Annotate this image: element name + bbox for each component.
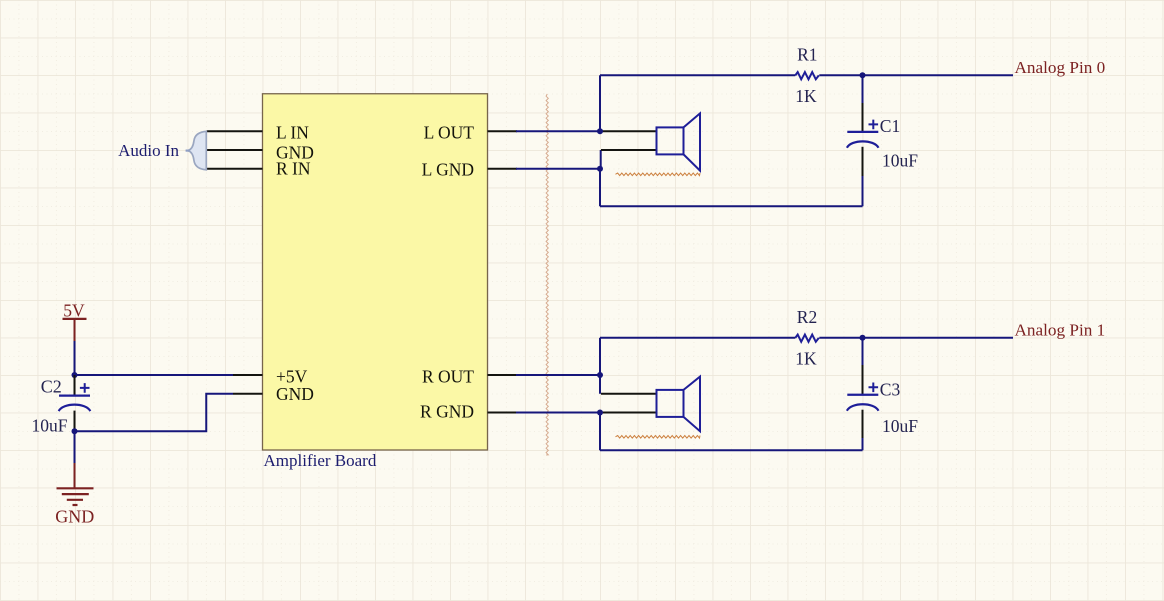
wire L OUT to node	[516, 130, 600, 132]
Audio In brace	[188, 131, 206, 169]
svg-text:1K: 1K	[795, 86, 817, 106]
C3 plus sign	[869, 383, 879, 393]
wire vertical node to bottom return (top loop)	[599, 169, 601, 207]
brace tip dot	[186, 150, 190, 152]
svg-text:Analog Pin 1: Analog Pin 1	[1015, 321, 1106, 340]
junction node at R1/C1	[860, 72, 866, 78]
node junction L GND	[597, 166, 603, 172]
svg-text:Amplifier Board: Amplifier Board	[264, 451, 377, 470]
svg-text:L IN: L IN	[276, 123, 309, 143]
svg-text:Analog Pin 0: Analog Pin 0	[1015, 58, 1106, 77]
svg-text:10uF: 10uF	[882, 416, 918, 436]
junction node C2/GND wire	[72, 428, 78, 434]
wire R GND to node	[516, 412, 600, 414]
svg-text:R1: R1	[797, 45, 817, 65]
wire C3 top lead	[862, 338, 864, 365]
pin GND (power)	[233, 384, 314, 404]
svg-text:L GND: L GND	[422, 160, 474, 180]
svg-text:GND: GND	[55, 506, 94, 526]
svg-text:C2: C2	[41, 377, 62, 397]
capacitor C3 plates	[847, 394, 878, 396]
wire bottom return (top loop)	[600, 205, 863, 207]
compile wavy underline LS2	[616, 436, 701, 439]
svg-text:C1: C1	[880, 116, 900, 136]
wire C3 bottom lead	[862, 438, 864, 450]
amplifier board U1 body	[263, 94, 488, 450]
wire C1 top lead	[862, 75, 864, 103]
wire R2 to Analog Pin 1	[819, 337, 1013, 339]
wire vertical left of speaker LS1 (top)	[599, 75, 601, 131]
pin GND (input)	[207, 143, 314, 163]
resistor R1 zigzag	[795, 72, 819, 79]
pin R IN	[207, 159, 311, 179]
svg-text:R IN: R IN	[276, 159, 311, 179]
wire L GND to node	[516, 168, 600, 170]
resistor R2 zigzag	[795, 335, 819, 342]
C1 plus sign	[869, 120, 879, 130]
wire C2 to GND pin (stepped)	[75, 394, 234, 432]
speaker LS1 body	[657, 113, 701, 170]
junction node at R2/C3	[860, 335, 866, 341]
power port 5V stem	[74, 319, 76, 341]
ground symbol	[57, 488, 94, 505]
wire R OUT to node	[516, 374, 600, 376]
node junction L OUT	[597, 128, 603, 134]
svg-text:Audio In: Audio In	[118, 141, 179, 160]
wire vertical node R GND down	[599, 413, 601, 451]
wire top loop 2 horizontal left segment	[600, 337, 795, 339]
svg-text:5V: 5V	[63, 300, 85, 320]
pin L IN	[207, 123, 310, 143]
svg-text:GND: GND	[276, 384, 314, 404]
junction node 5V/C2	[72, 372, 78, 378]
wire down to ground	[74, 431, 76, 463]
wire 5V to +5V pin	[74, 341, 76, 375]
wire vertical top loop 2	[599, 338, 601, 394]
pin +5V	[233, 366, 308, 386]
svg-text:1K: 1K	[795, 349, 817, 369]
svg-text:10uF: 10uF	[882, 151, 918, 171]
svg-text:R OUT: R OUT	[422, 366, 474, 386]
speaker LS1 pins	[601, 131, 657, 150]
wire bottom return (loop 2)	[600, 449, 863, 451]
wire C2 top lead	[74, 375, 76, 396]
speaker LS2 pins	[601, 394, 657, 413]
pin L OUT	[424, 123, 517, 143]
compile wavy underline LS1	[616, 173, 701, 176]
node junction R GND	[597, 410, 603, 416]
power port 5V bar	[63, 318, 87, 320]
capacitor C2 plates	[59, 395, 90, 397]
speaker LS2 body	[657, 377, 701, 432]
svg-text:10uF: 10uF	[32, 415, 68, 435]
wire C1 bottom lead	[862, 176, 864, 206]
pin R GND	[420, 402, 517, 422]
pin L GND	[422, 160, 517, 180]
svg-text:R2: R2	[797, 307, 817, 327]
svg-text:R GND: R GND	[420, 402, 474, 422]
C2 plus sign	[80, 383, 90, 393]
wire elbow speaker LS1 bottom pin	[600, 150, 602, 169]
node junction R OUT	[597, 372, 603, 378]
wire R1 to Analog Pin 0	[819, 74, 1013, 76]
pin R OUT	[422, 366, 517, 386]
capacitor C1 plates	[847, 131, 878, 133]
svg-text:C3: C3	[880, 379, 901, 399]
wire C2 bottom lead	[74, 411, 76, 432]
wire top loop horizontal left segment	[600, 74, 795, 76]
svg-text:L OUT: L OUT	[424, 123, 475, 143]
compile-mask wavy divider line	[546, 94, 548, 455]
